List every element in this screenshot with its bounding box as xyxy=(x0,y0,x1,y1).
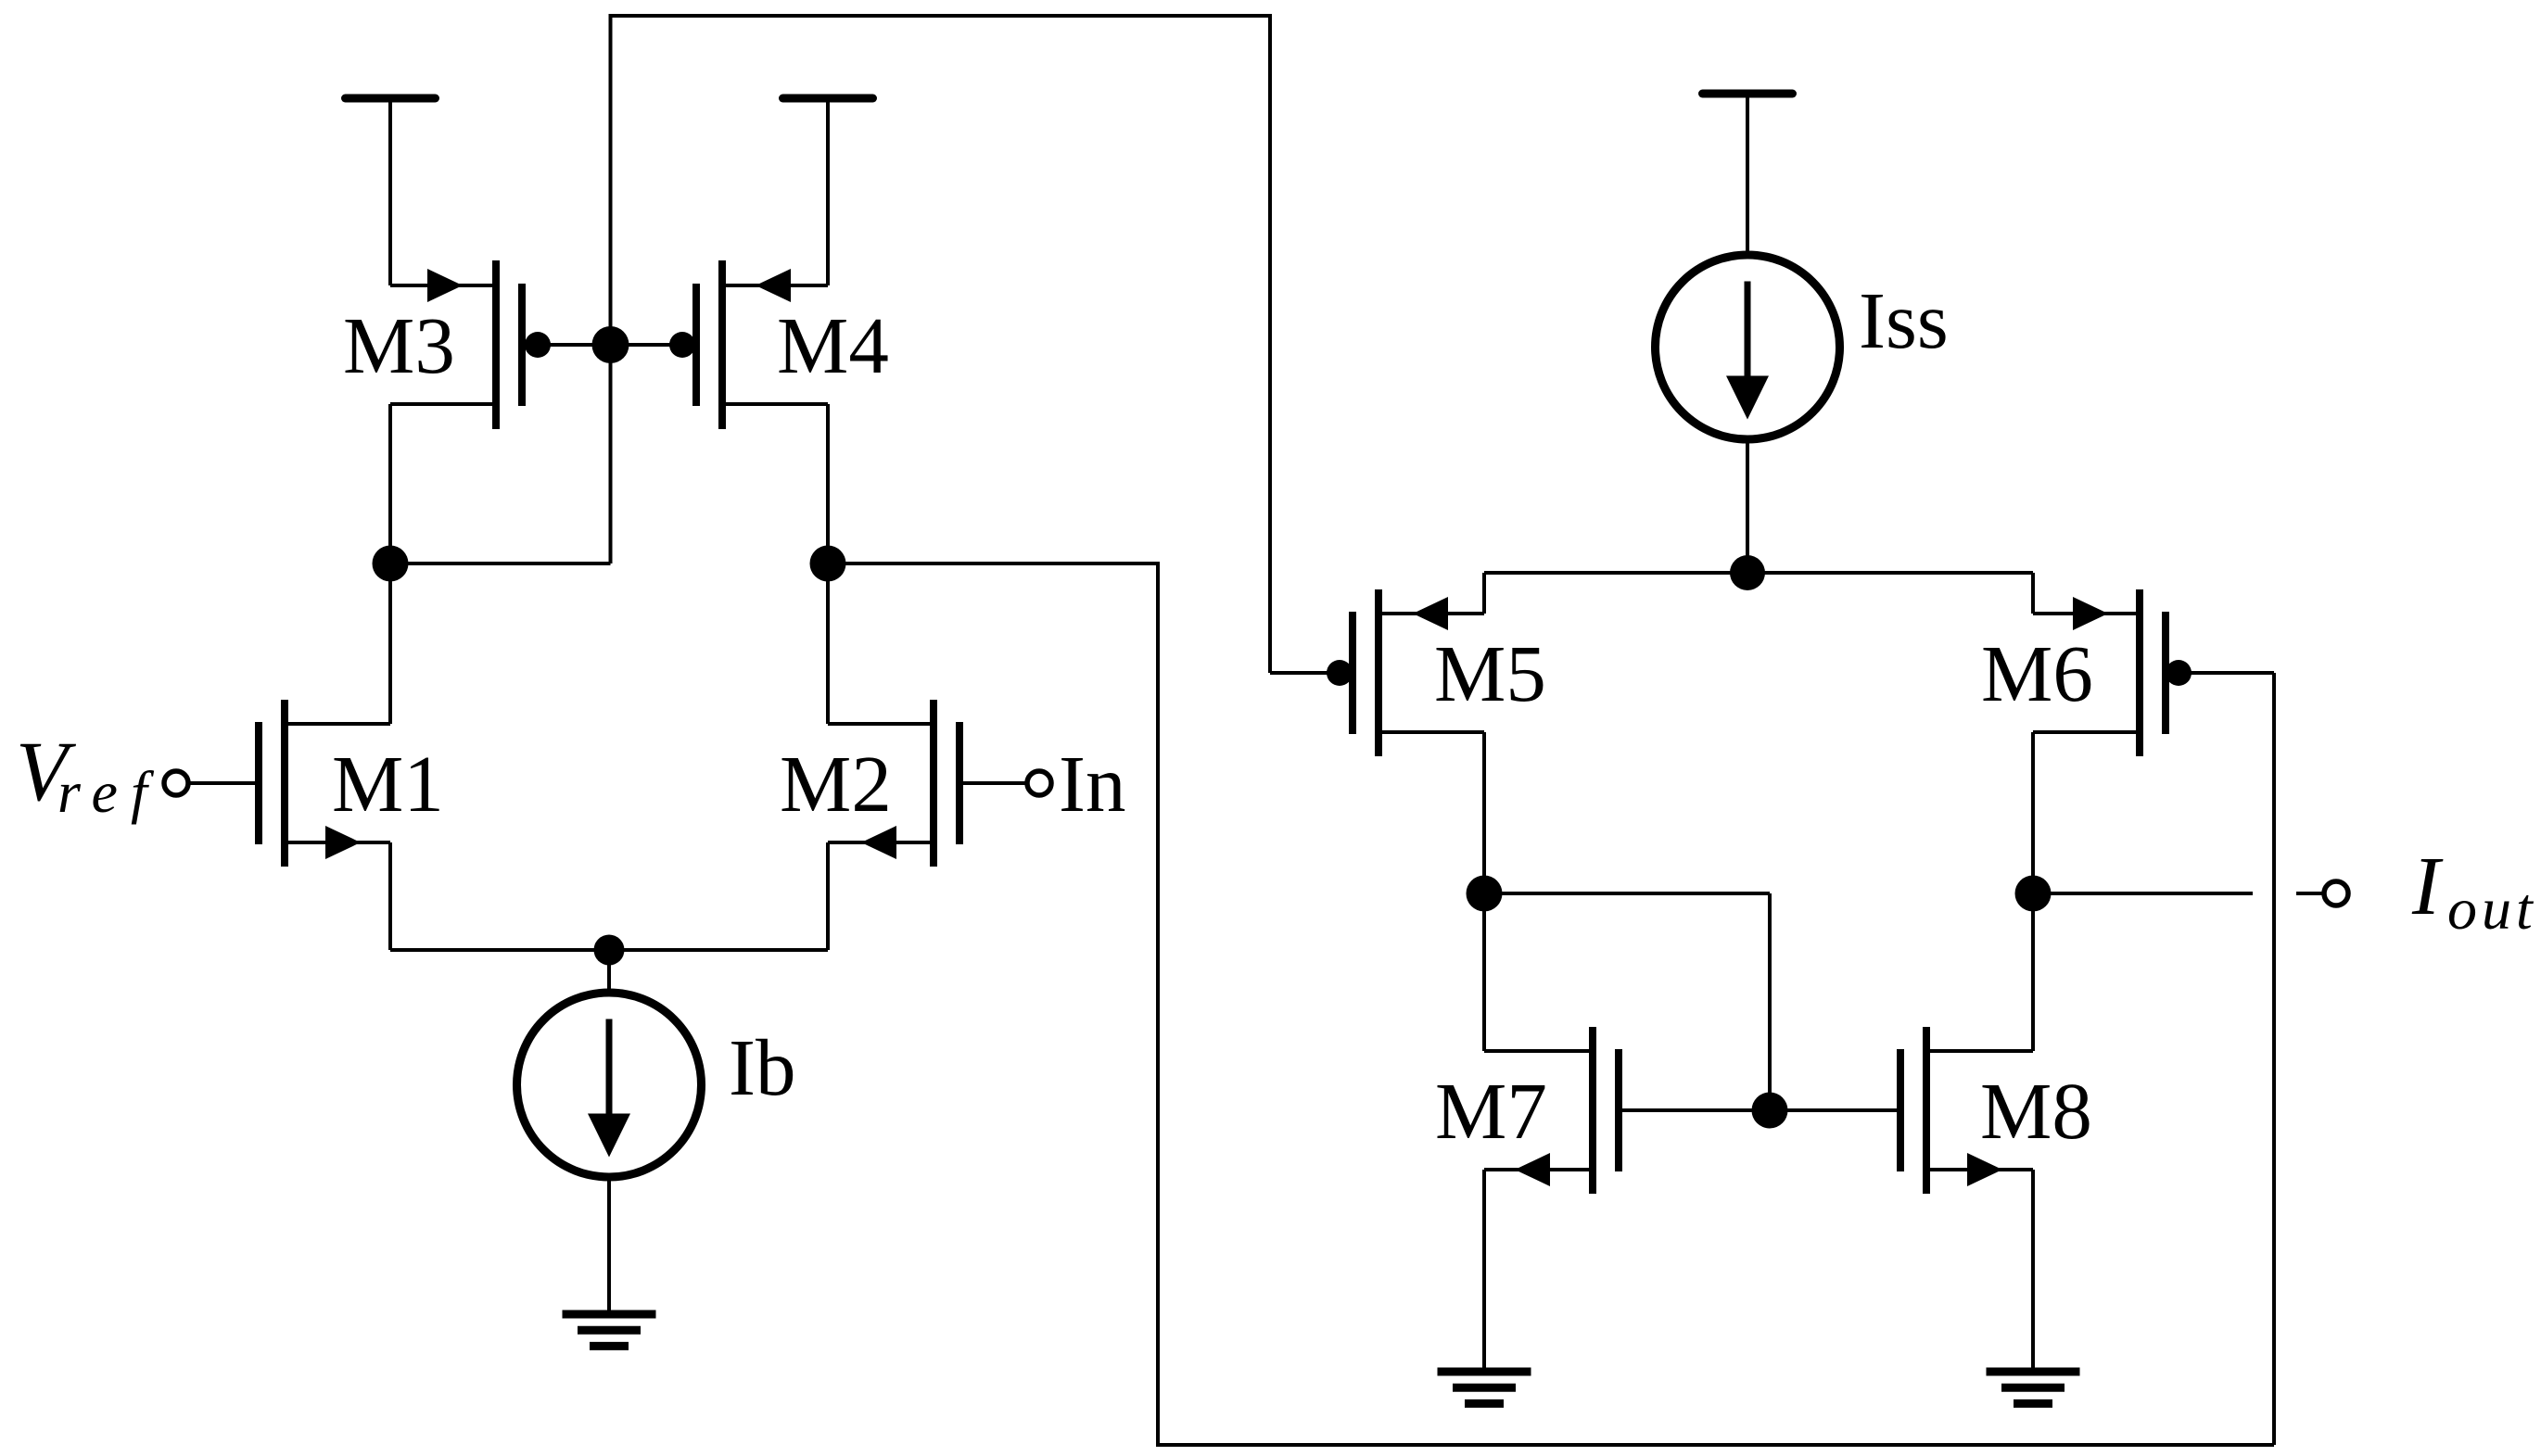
svg-text:M2: M2 xyxy=(780,739,892,829)
svg-text:M8: M8 xyxy=(1980,1066,2092,1156)
svg-text:M7: M7 xyxy=(1435,1066,1547,1156)
svg-text:M4: M4 xyxy=(777,300,889,390)
svg-text:Ib: Ib xyxy=(729,1022,795,1112)
svg-text:In: In xyxy=(1059,739,1125,829)
svg-text:Iss: Iss xyxy=(1859,275,1949,365)
svg-text:M6: M6 xyxy=(1981,628,2093,718)
svg-text:ref: ref xyxy=(57,759,160,825)
svg-text:out: out xyxy=(2447,876,2537,942)
svg-text:I: I xyxy=(2411,841,2444,932)
svg-text:M1: M1 xyxy=(332,739,444,829)
svg-text:M3: M3 xyxy=(343,300,455,390)
svg-text:M5: M5 xyxy=(1434,628,1546,718)
